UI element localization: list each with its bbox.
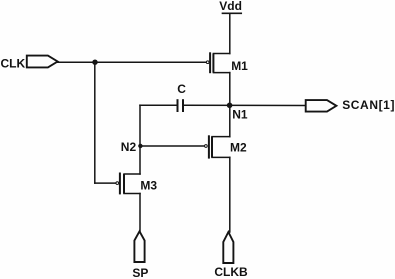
svg-text:M2: M2 xyxy=(230,140,247,154)
svg-text:Vdd: Vdd xyxy=(219,0,242,13)
svg-text:CLKB: CLKB xyxy=(214,265,248,279)
svg-text:C: C xyxy=(177,82,186,96)
svg-text:N1: N1 xyxy=(232,107,248,121)
svg-text:SP: SP xyxy=(132,266,148,279)
svg-text:CLK: CLK xyxy=(1,56,26,70)
svg-text:N2: N2 xyxy=(121,140,137,154)
svg-text:M1: M1 xyxy=(231,59,248,73)
svg-text:M3: M3 xyxy=(140,179,157,193)
svg-text:SCAN[1]: SCAN[1] xyxy=(342,98,395,112)
